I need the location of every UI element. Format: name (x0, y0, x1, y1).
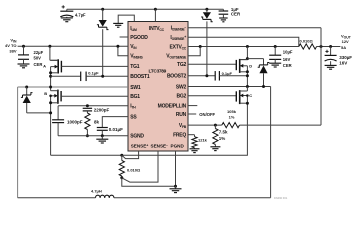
wire TG1 (61, 65, 128, 67)
node QA source junction (49, 71, 52, 74)
transistor QB buck bottom switch (44, 90, 61, 104)
resistor 7.5k 1% feedback bottom (213, 125, 228, 147)
svg-text:BG1: BG1 (130, 94, 140, 100)
wire RSNS to PGND (122, 178, 176, 187)
svg-text:0.010Ω: 0.010Ω (127, 167, 141, 172)
svg-text:SENSE−: SENSE− (151, 144, 169, 149)
resistor 121k FREQ (192, 135, 208, 149)
svg-text:VFB: VFB (179, 123, 187, 129)
wire BG2 (188, 95, 236, 97)
svg-text:8k: 8k (94, 120, 100, 125)
node BOOST1-SW1 tie (49, 75, 52, 78)
svg-text:7.5k: 7.5k (219, 129, 228, 134)
transistor QD boost top switch (236, 59, 252, 73)
resistor 8k ITH (85, 111, 100, 136)
node VOUT-C330 junction (329, 45, 332, 48)
svg-text:VOUTSENSE: VOUTSENSE (166, 54, 187, 60)
svg-text:TG2: TG2 (177, 62, 186, 68)
node QB source junction (49, 101, 52, 104)
wire VFB left (188, 124, 222, 126)
svg-text:ITH: ITH (130, 104, 136, 110)
node VINSNS junction (116, 45, 119, 48)
node RSNS bottom junction (120, 176, 123, 179)
wire PGOOD stub (120, 36, 128, 38)
capacitor 22uF 50V CER input (18, 46, 44, 68)
inductor L1 4.7uH (91, 188, 114, 197)
svg-text:SS: SS (130, 114, 137, 120)
svg-text:LTC3789: LTC3789 (149, 69, 167, 75)
diode DD freewheel right (247, 59, 269, 87)
wire VFB to VOUT (240, 47, 322, 126)
capacitor 2200pF ITH (83, 107, 110, 112)
wire ITH (58, 105, 128, 107)
wire IOSENSE- vertical (320, 28, 322, 47)
wire PGND pin (175, 151, 177, 186)
svg-text:IOSENSE+: IOSENSE+ (170, 35, 186, 41)
svg-text:4V TO: 4V TO (5, 43, 17, 48)
svg-text:MODE/PLLIN: MODE/PLLIN (158, 103, 187, 109)
svg-text:1%: 1% (229, 115, 235, 120)
transistor QA buck top switch (43, 59, 61, 73)
label DN tag (274, 196, 288, 200)
svg-text:CER: CER (283, 63, 292, 68)
node VOUT-FB junction (320, 45, 323, 48)
wire IOSENSE+ to RS left (188, 37, 299, 46)
wire bottom rail right (114, 197, 271, 199)
wire QB source-body vertical (50, 96, 52, 156)
wire QD source-body vertical (246, 66, 248, 87)
resistor 0.010ohm RSENSE (119, 155, 141, 178)
capacitor 1000pF ITH (52, 106, 83, 136)
ground 7.5k (210, 147, 220, 151)
capacitor 0.1uF boost left (81, 71, 99, 81)
node VFB junction (214, 124, 217, 127)
node VIN label (5, 37, 17, 53)
wire SENSE+ jog (122, 151, 139, 159)
node VOUT label (341, 33, 352, 50)
svg-text:C: C (249, 93, 252, 98)
capacitor 0.1uF boost right (215, 71, 232, 81)
svg-text:RUN: RUN (176, 112, 187, 118)
capacitor 4.7uF INTVCC bypass (60, 5, 86, 21)
node BOOST1-DB1 junction (101, 75, 104, 78)
svg-text:PGND: PGND (171, 144, 185, 149)
wire SW1 (18, 86, 128, 88)
node BOOST2-SW2 tie (246, 74, 249, 77)
wire ILIM to ground (118, 15, 134, 23)
svg-text:INTVCC: INTVCC (149, 26, 165, 32)
wire QC source-body vertical (246, 96, 248, 104)
node QD source junction (246, 70, 249, 73)
node INTVCC-DB1 junction (101, 8, 104, 11)
wire QC drain vertical (246, 87, 248, 92)
svg-text:SENSE+: SENSE+ (131, 144, 149, 149)
wire INTVCC rail (67, 8, 224, 10)
node INTVCC pin junction (154, 8, 157, 11)
node QB-DB junction (49, 111, 52, 114)
wire bottom rail left (18, 197, 96, 199)
wire IOSENSE- to VOUT (188, 27, 321, 29)
resistor 105k 1% feedback top (222, 109, 240, 128)
svg-text:10µF: 10µF (283, 50, 293, 55)
op-amp U1 LTC3789 controller (128, 22, 188, 152)
node QC source junction (246, 102, 249, 105)
node SW2-DD junction (262, 85, 265, 88)
svg-text:VINSNS: VINSNS (130, 54, 143, 60)
svg-text:0.01µF: 0.01µF (109, 127, 123, 132)
ground ILIM (113, 23, 123, 27)
svg-text:DN460 F01: DN460 F01 (274, 196, 288, 200)
svg-text:BOOST2: BOOST2 (167, 74, 187, 80)
svg-text:4.7µH: 4.7µH (91, 188, 102, 193)
wire SS (102, 117, 128, 128)
svg-text:0.1µF: 0.1µF (88, 71, 99, 76)
node SW2-QD junction (246, 85, 249, 88)
wire SGND (58, 135, 128, 137)
svg-text:IOSENSE−: IOSENSE− (171, 26, 187, 32)
svg-text:105k: 105k (227, 109, 237, 114)
svg-text:BG2: BG2 (176, 94, 186, 100)
svg-text:D: D (249, 63, 252, 68)
wire TG2 (188, 63, 236, 65)
svg-text:38V: 38V (9, 49, 16, 54)
capacitor 10uF 16V CER (269, 47, 293, 68)
node PGND junction (174, 185, 177, 188)
svg-text:2200pF: 2200pF (94, 107, 110, 112)
diode DB freewheel left (21, 87, 51, 113)
node RSNS top junction (120, 154, 123, 157)
wire INTVCC pin stub (154, 9, 156, 21)
svg-text:ILIM: ILIM (130, 26, 137, 32)
ground PGND (170, 186, 182, 192)
svg-text:121k: 121k (198, 138, 208, 143)
capacitor 330uF 16V output (325, 47, 353, 70)
wire RS to VOUT (317, 46, 341, 48)
svg-text:B: B (44, 91, 47, 96)
svg-text:A: A (43, 64, 46, 69)
svg-text:5A: 5A (341, 45, 346, 50)
node QD diode tap (246, 57, 249, 60)
wire SW1 left vertical (17, 87, 19, 198)
wire VOUTSENSE jog (188, 47, 200, 56)
wire SW2 (188, 86, 271, 88)
svg-text:SW2: SW2 (176, 84, 187, 90)
svg-text:4.7µF: 4.7µF (75, 12, 86, 17)
svg-text:0.010Ω: 0.010Ω (300, 39, 314, 44)
svg-text:BOOST1: BOOST1 (130, 74, 150, 80)
wire VIN rail (18, 45, 128, 47)
svg-text:1000pF: 1000pF (67, 119, 83, 124)
node QB body junction (49, 95, 52, 98)
svg-text:PGOOD: PGOOD (130, 35, 148, 41)
wire QA source-body vertical (50, 67, 52, 91)
svg-text:EXTVCC: EXTVCC (170, 44, 187, 50)
wire BG1 (61, 95, 128, 97)
wire BOOST2 left segment (188, 75, 215, 77)
diode DB1 boost schottky left (97, 9, 109, 76)
ground SGND (96, 136, 108, 143)
node VOUT-C10 junction (274, 45, 277, 48)
wire BOOST1 left segment (51, 75, 81, 77)
node VIN-QA junction (48, 45, 51, 48)
wire BOOST2 right segment (219, 75, 247, 77)
svg-text:FREQ: FREQ (173, 133, 186, 139)
svg-text:330µF: 330µF (339, 55, 352, 60)
svg-text:0.1µF: 0.1µF (222, 71, 233, 76)
node SGND junction (101, 134, 104, 137)
node INTVCC-DB2 junction (205, 8, 208, 11)
wire EXTVCC VOUT rail (188, 46, 299, 48)
node SW1-QA junction (49, 86, 52, 89)
svg-text:VIN: VIN (10, 37, 17, 43)
svg-text:1%: 1% (219, 136, 226, 141)
wire source sense rail (51, 103, 248, 155)
capacitor 1uF CER INTVCC (219, 7, 241, 22)
wire FREQ stub (188, 134, 195, 136)
node 8k-SGND junction (86, 134, 89, 137)
resistor 0.010ohm output sense (299, 39, 317, 50)
svg-text:16V: 16V (283, 57, 291, 62)
ground 121k (190, 149, 200, 153)
svg-text:CER: CER (34, 62, 43, 67)
diode DB2 boost schottky right (201, 9, 213, 76)
capacitor 0.01uF SS (97, 127, 123, 136)
svg-text:50V: 50V (34, 55, 42, 60)
svg-text:ON/OFF: ON/OFF (199, 112, 215, 117)
svg-text:12V: 12V (342, 39, 349, 44)
node QD drain junction (246, 45, 249, 48)
node BOOST2-DB2 junction (205, 74, 208, 77)
svg-text:VIN: VIN (130, 44, 137, 50)
node VOUTSENSE junction (199, 45, 202, 48)
node QC body junction (246, 94, 249, 97)
node VIN-C22 junction (22, 45, 25, 48)
wire QA drain (50, 46, 58, 60)
wire MODE/PLLIN stub (188, 105, 197, 107)
node SW1-DB junction (25, 86, 28, 89)
transistor QC boost bottom switch (236, 90, 252, 104)
svg-text:CER: CER (231, 12, 241, 17)
wire SW2 down vertical (270, 87, 272, 198)
wire RUN (188, 112, 216, 117)
wire BOOST1 right segment (86, 75, 128, 77)
node ITH comp junction (86, 104, 89, 107)
svg-text:TG1: TG1 (130, 64, 139, 70)
wire VINSNS jog (118, 46, 128, 56)
svg-text:SGND: SGND (130, 134, 144, 140)
wire SENSE- jog (122, 151, 158, 182)
wire QD drain vertical (240, 47, 248, 60)
svg-text:SW1: SW1 (130, 85, 141, 91)
svg-text:16V: 16V (339, 60, 347, 65)
